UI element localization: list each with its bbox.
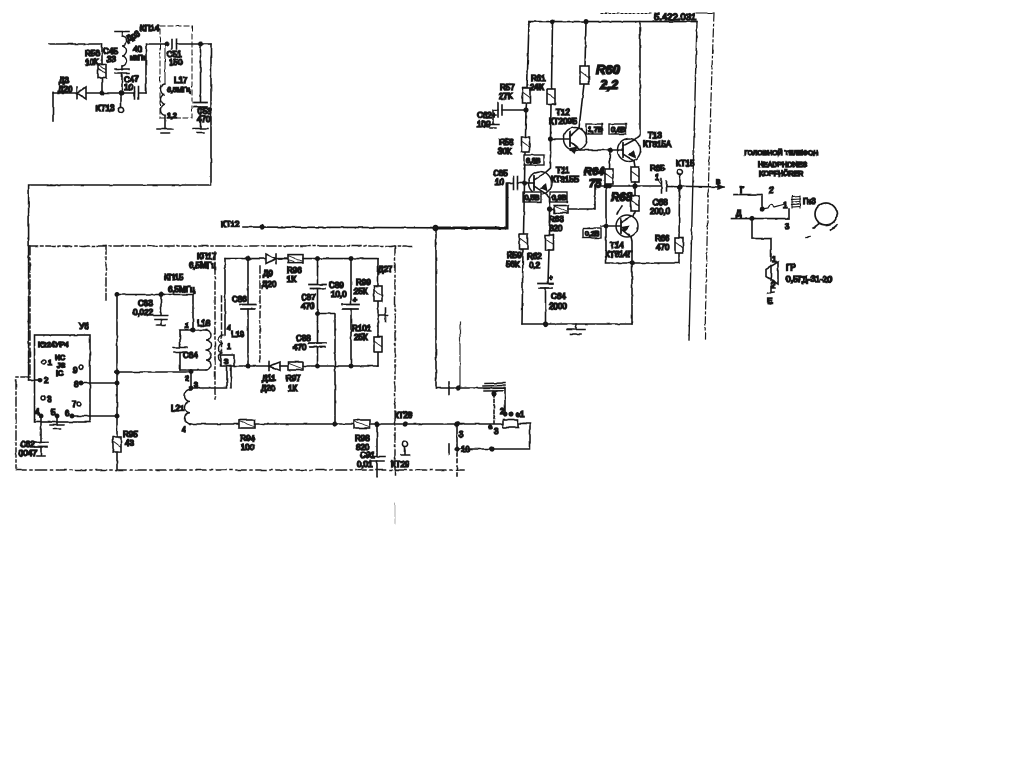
wire to speaker	[752, 219, 771, 261]
svg-text:С64: С64	[183, 351, 198, 360]
node R56/D3	[100, 91, 103, 94]
svg-text:+: +	[549, 275, 553, 282]
svg-text:10К: 10К	[85, 58, 99, 67]
svg-text:1: 1	[520, 410, 525, 419]
svg-text:1К: 1К	[287, 275, 296, 284]
svg-text:0,9В: 0,9В	[552, 195, 567, 202]
svg-text:6,5МГц: 6,5МГц	[168, 285, 195, 294]
svg-text:10,0: 10,0	[331, 290, 347, 299]
volume resistor	[503, 420, 518, 428]
svg-text:100: 100	[241, 443, 255, 452]
long wire right side down and to left block	[29, 44, 211, 380]
svg-text:ГОЛОВНОЙ ТЕЛЕФОН: ГОЛОВНОЙ ТЕЛЕФОН	[744, 148, 818, 157]
svg-text:2: 2	[500, 407, 505, 416]
svg-text:75: 75	[589, 178, 602, 190]
wire loop bottom	[457, 424, 530, 450]
svg-text:L18: L18	[197, 319, 211, 328]
transistor T12 KT209B	[549, 108, 587, 153]
voltage box 0,2V	[583, 228, 601, 238]
dashed border of right unit	[459, 322, 461, 387]
svg-text:R59: R59	[507, 251, 522, 260]
svg-text:R65: R65	[650, 164, 665, 173]
tick	[448, 382, 450, 394]
svg-text:1: 1	[783, 201, 788, 210]
capacitor C64 2000	[538, 275, 567, 324]
box wire bottom	[606, 226, 679, 263]
svg-text:R62: R62	[527, 252, 542, 261]
coil L17	[161, 44, 191, 120]
svg-text:R68: R68	[611, 192, 633, 204]
capacitor C45	[103, 47, 129, 95]
capacitor C89 10,0	[329, 257, 359, 366]
svg-text:Е: Е	[767, 297, 772, 306]
wire pin8	[81, 382, 117, 384]
resistor R101 25K	[352, 315, 382, 366]
svg-text:R64: R64	[584, 166, 604, 178]
hatched contact	[483, 383, 505, 391]
wire	[102, 92, 134, 94]
filter unit border left	[214, 252, 216, 399]
svg-text:470: 470	[293, 343, 307, 352]
coil L21	[171, 372, 198, 435]
capacitor C91 0,01	[357, 422, 385, 477]
resistor R68	[611, 186, 639, 216]
boundary inner vertical	[105, 246, 107, 300]
resistor R64 75	[584, 150, 613, 190]
svg-text:30К: 30К	[498, 147, 512, 156]
voltage box 1,7V	[586, 124, 603, 134]
svg-text:25К: 25К	[354, 287, 368, 296]
node C51 left	[165, 42, 168, 45]
resistor R94 100	[239, 420, 255, 452]
svg-text:С89: С89	[329, 281, 344, 290]
frame line solid	[689, 22, 697, 340]
node tap from C87/C88	[333, 422, 337, 426]
svg-text:С86: С86	[232, 295, 247, 304]
svg-text:2: 2	[769, 186, 774, 195]
svg-text:0,01: 0,01	[357, 460, 373, 469]
T11 base node on divider	[523, 181, 527, 185]
svg-text:820: 820	[549, 224, 563, 233]
tank bottom wire, pin2	[180, 370, 206, 372]
svg-text:25К: 25К	[354, 333, 368, 342]
dashed box L17	[160, 26, 192, 118]
svg-text:56К: 56К	[506, 260, 520, 269]
top supply rail	[529, 21, 697, 23]
svg-text:2: 2	[44, 376, 49, 385]
svg-text:КТ315Б: КТ315Б	[551, 175, 579, 184]
T11 collector wire	[545, 139, 551, 173]
main bottom wire	[190, 423, 503, 425]
svg-text:R57: R57	[500, 83, 515, 92]
resistor R61 24K	[530, 22, 555, 139]
inductor Dr3 40mkH	[115, 29, 145, 66]
svg-text:R98: R98	[355, 434, 370, 443]
svg-text:470: 470	[301, 302, 315, 311]
svg-text:R56: R56	[85, 49, 100, 58]
svg-text:КТ815А: КТ815А	[643, 140, 672, 149]
wire L18 pin2 to R95 line	[117, 371, 191, 373]
svg-text:L21: L21	[171, 404, 185, 413]
svg-text:6,5МГц: 6,5МГц	[189, 261, 216, 270]
bottom rail	[522, 323, 632, 325]
capacitor C62 0,047	[19, 416, 48, 458]
svg-text:КТ13: КТ13	[96, 104, 115, 113]
svg-text:Д11: Д11	[262, 374, 276, 383]
svg-text:R101: R101	[352, 324, 372, 333]
wire up to top node	[146, 44, 167, 93]
node C87/C88, tap wire	[316, 312, 319, 315]
svg-text:Д: Д	[736, 209, 742, 218]
resistor R98 820	[354, 420, 370, 452]
svg-text:С88: С88	[296, 334, 311, 343]
svg-text:4: 4	[182, 427, 186, 434]
output node	[633, 184, 637, 188]
test point KT13	[96, 91, 124, 113]
svg-text:Д20: Д20	[262, 280, 277, 289]
capacitor C88 470	[293, 314, 326, 367]
svg-text:мкГн: мкГн	[130, 55, 145, 62]
svg-text:КТ15: КТ15	[676, 159, 695, 168]
test point KT29	[391, 441, 410, 469]
capacitor C63 0,022	[115, 293, 193, 325]
voltage box 0,9V	[550, 192, 567, 202]
svg-text:9: 9	[73, 366, 78, 375]
coil L19	[219, 259, 245, 366]
svg-text:ІС: ІС	[56, 371, 63, 378]
diode D3 D20	[53, 76, 102, 121]
svg-text:150: 150	[169, 58, 183, 67]
svg-text:КТ814Г: КТ814Г	[605, 250, 633, 259]
svg-text:6: 6	[65, 409, 70, 418]
output arrow B	[718, 185, 723, 189]
svg-text:1,7В: 1,7В	[588, 127, 603, 134]
resistor R99 25K	[351, 259, 382, 315]
svg-text:8: 8	[74, 380, 79, 389]
connector pin drop	[504, 388, 506, 414]
svg-text:R60: R60	[596, 62, 621, 77]
filter unit border right	[259, 266, 261, 362]
svg-text:0,6В: 0,6В	[611, 127, 626, 134]
ground L17	[157, 116, 173, 134]
svg-text:3: 3	[785, 222, 790, 231]
svg-text:2: 2	[185, 376, 189, 383]
svg-text:1: 1	[185, 323, 189, 330]
svg-text:R99: R99	[356, 278, 371, 287]
wire pin2	[29, 379, 40, 381]
voltage box 0,6V	[609, 124, 626, 134]
svg-text:Т12: Т12	[556, 108, 570, 117]
svg-text:3: 3	[194, 382, 198, 389]
svg-text:1: 1	[655, 173, 660, 182]
svg-text:Т14: Т14	[610, 241, 624, 250]
filter unit border left2	[221, 296, 223, 352]
svg-text:С62+: С62+	[477, 111, 497, 120]
svg-text:3: 3	[494, 427, 499, 436]
svg-text:0,2В: 0,2В	[585, 231, 600, 238]
svg-text:КТ209Б: КТ209Б	[549, 117, 577, 126]
resistor R57 27K	[499, 22, 531, 110]
capacitor C87 470	[301, 259, 326, 314]
capacitor C86	[232, 257, 256, 366]
dash-dot boundaries middle block	[16, 246, 464, 475]
resistor R59 56K	[506, 183, 528, 324]
svg-text:1: 1	[48, 360, 52, 367]
svg-text:R96: R96	[287, 266, 302, 275]
capacitor C51 150	[167, 39, 200, 67]
connector Gn3 hatched	[792, 196, 801, 208]
boundary left upper	[29, 246, 31, 375]
output wire	[595, 185, 661, 187]
svg-text:6,8В: 6,8В	[526, 158, 541, 165]
wire row to connector	[436, 387, 505, 389]
svg-text:У6: У6	[79, 322, 89, 331]
svg-text:1К: 1К	[288, 384, 297, 393]
wire T12 emitter to T13 base	[580, 149, 623, 151]
svg-text:3: 3	[459, 430, 464, 439]
KT12 wire	[221, 220, 435, 229]
svg-text:1: 1	[227, 344, 231, 351]
headphone symbol	[806, 203, 837, 238]
capacitor C68 200,0	[650, 179, 724, 216]
wire input left	[49, 43, 102, 45]
test point KT15	[676, 159, 695, 190]
svg-text:Д27: Д27	[378, 265, 393, 274]
svg-text:R63: R63	[549, 215, 564, 224]
svg-text:3: 3	[224, 359, 228, 366]
svg-text:КП15: КП15	[164, 273, 184, 282]
svg-text:R97: R97	[286, 374, 301, 383]
boundary bottom	[16, 469, 464, 471]
svg-text:R61: R61	[531, 74, 546, 83]
svg-text:Д20: Д20	[58, 85, 73, 94]
svg-text:10: 10	[461, 445, 470, 454]
svg-text:Гн3: Гн3	[803, 197, 816, 206]
voltage box 0,5V	[523, 192, 541, 202]
svg-text:Г: Г	[740, 186, 745, 195]
ground C53	[193, 129, 208, 133]
diode D11 D20	[261, 362, 288, 393]
switch arm 1	[762, 205, 783, 210]
resistor R96 1K	[287, 255, 318, 284]
thick wire to amplifier	[435, 184, 507, 228]
svg-text:470: 470	[656, 243, 670, 252]
svg-text:0047: 0047	[19, 449, 37, 458]
svg-text:40: 40	[133, 45, 142, 54]
resistor R63 820	[549, 186, 595, 233]
detector top wire	[225, 258, 266, 260]
speaker GR	[766, 255, 832, 290]
dash continue below	[456, 452, 458, 476]
svg-text:24К: 24К	[530, 83, 544, 92]
svg-text:Т11: Т11	[556, 166, 570, 175]
resistor R60 2,2	[579, 22, 621, 128]
IC U6 K224UR4	[35, 322, 91, 422]
svg-text:+: +	[353, 297, 357, 304]
svg-text:С62: С62	[20, 440, 35, 449]
T13 collector to rail	[634, 22, 640, 140]
svg-text:27К: 27К	[499, 92, 513, 101]
svg-text:Д9: Д9	[263, 269, 273, 278]
T14 emitter down to rail	[631, 237, 632, 324]
svg-text:R94: R94	[240, 434, 255, 443]
svg-text:ГР: ГР	[786, 263, 796, 272]
svg-text:КТ28: КТ28	[394, 411, 413, 420]
svg-text:0,022: 0,022	[133, 308, 154, 317]
svg-text:КТ29: КТ29	[391, 460, 410, 469]
diode D9 D20	[262, 254, 288, 289]
voltage box 6,8V	[524, 155, 544, 165]
svg-text:ИС: ИС	[55, 355, 65, 362]
svg-text:R58: R58	[499, 138, 514, 147]
wire pin6	[72, 415, 117, 417]
svg-text:L17: L17	[174, 76, 188, 85]
detector bottom wire	[234, 365, 269, 367]
svg-text:L19: L19	[231, 330, 245, 339]
boundary jog	[16, 377, 30, 468]
svg-text:0,5В: 0,5В	[525, 195, 540, 202]
svg-text:0,5ГД-31-20: 0,5ГД-31-20	[786, 274, 832, 284]
svg-text:Т13: Т13	[648, 131, 662, 140]
wire below speaker	[768, 284, 774, 293]
svg-text:КП17: КП17	[197, 252, 217, 261]
T11 emitter node	[546, 194, 550, 235]
wire down from KT12 node	[435, 229, 437, 388]
svg-text:С87: С87	[301, 293, 316, 302]
svg-text:10: 10	[495, 178, 504, 187]
svg-text:ЈЅ: ЈЅ	[57, 363, 66, 370]
svg-text:КТ12: КТ12	[221, 220, 240, 229]
resistor R56	[85, 44, 106, 93]
boundary top	[29, 245, 414, 247]
coil L18	[206, 330, 211, 370]
svg-text:в: в	[716, 177, 720, 186]
frame line dash-dot	[705, 13, 714, 339]
wire L21 to L19 pin3 box	[191, 366, 231, 388]
tank circuit top wire	[180, 329, 206, 331]
svg-text:С91: С91	[360, 451, 375, 460]
capacitor C64	[173, 330, 198, 370]
transistor T11 KT315B	[529, 166, 580, 195]
tap tick between R99/R101	[378, 308, 388, 322]
T13 emitter to R65	[634, 161, 635, 167]
svg-text:КП14: КП14	[140, 24, 160, 33]
resistor R66 470	[655, 190, 683, 253]
test point KT28	[403, 422, 407, 426]
svg-text:Д20: Д20	[261, 384, 276, 393]
junction 3	[455, 422, 459, 426]
svg-text:R95: R95	[123, 430, 138, 439]
svg-text:1,2: 1,2	[167, 113, 177, 120]
transistor T13 KT815A	[618, 131, 672, 162]
T14 base wire	[601, 186, 621, 226]
ground symbol	[567, 324, 585, 334]
svg-text:К224УР4: К224УР4	[38, 340, 69, 349]
svg-text:100: 100	[477, 120, 491, 129]
svg-text:2000: 2000	[549, 302, 567, 311]
capacitor C65 10	[493, 169, 525, 190]
svg-text:Д3: Д3	[59, 76, 69, 85]
resistor R95 43	[113, 295, 138, 471]
svg-text:470: 470	[197, 115, 211, 124]
resistor R97 1K	[286, 362, 378, 393]
svg-text:33: 33	[107, 55, 116, 64]
svg-text:2,2: 2,2	[599, 77, 619, 92]
resistor R62 0,2	[527, 235, 554, 283]
svg-text:KOPFHÖRER: KOPFHÖRER	[759, 170, 803, 178]
capacitor C62 100	[477, 103, 528, 129]
svg-text:HEADPHONES: HEADPHONES	[758, 162, 807, 169]
svg-text:С68: С68	[653, 198, 668, 207]
stray mark below	[394, 503, 396, 524]
svg-text:200,0: 200,0	[650, 207, 671, 216]
svg-text:R66: R66	[655, 234, 670, 243]
svg-text:С63: С63	[138, 299, 153, 308]
capacitor C53 470	[194, 44, 212, 128]
node right	[199, 42, 202, 45]
svg-text:6,5МГц: 6,5МГц	[167, 87, 190, 94]
svg-text:0,2: 0,2	[529, 261, 541, 270]
resistor R58 30K	[498, 110, 530, 183]
svg-text:С65: С65	[493, 169, 508, 178]
svg-text:3: 3	[47, 395, 52, 404]
boundary right	[394, 246, 396, 475]
ground pin5	[50, 416, 64, 429]
svg-text:43: 43	[125, 439, 134, 448]
capacitor C47	[124, 75, 146, 99]
transistor T14 KT814G	[605, 215, 638, 259]
svg-text:С64: С64	[551, 292, 566, 301]
resistor R65	[631, 164, 665, 186]
svg-text:10: 10	[124, 83, 133, 92]
node L18 pin1	[192, 295, 194, 331]
wire to C87 column	[318, 258, 352, 260]
svg-text:5.422.031: 5.422.031	[654, 12, 696, 23]
